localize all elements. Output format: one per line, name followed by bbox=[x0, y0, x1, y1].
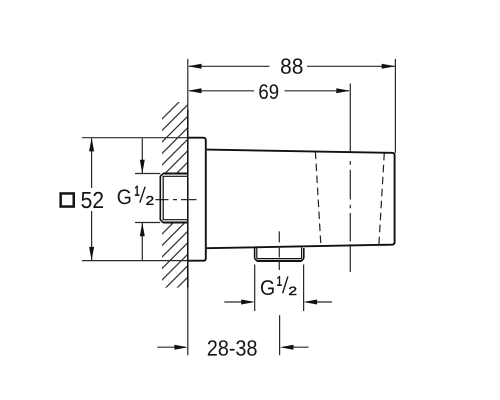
dimension 69 text bbox=[259, 84, 278, 99]
dimension 52 bottom extension line bbox=[82, 260, 188, 262]
square symbol for 52 bbox=[61, 193, 74, 206]
dimension 88 right arrowhead bbox=[382, 64, 396, 69]
left G 1/2 label bbox=[118, 186, 154, 205]
dimension 52 top extension line bbox=[82, 137, 188, 139]
flange outline bbox=[188, 138, 206, 261]
body hidden edge (right dashed) bbox=[379, 153, 384, 245]
dimension 28-38 text bbox=[208, 340, 257, 356]
wall thread G1/2 outline bbox=[160, 174, 188, 223]
outlet G1/2 dimension right arrow bbox=[306, 301, 332, 303]
outlet G 1/2 label bbox=[261, 276, 296, 295]
outlet witness line left bbox=[254, 265, 256, 312]
body hidden edge (left dashed) bbox=[315, 152, 321, 246]
body outline bbox=[207, 150, 395, 249]
dimension 88 line bbox=[189, 65, 395, 67]
wall surface line bbox=[187, 59, 189, 355]
thread dimension upper arrow bbox=[141, 138, 143, 173]
thread dimension witness line bottom bbox=[135, 222, 160, 224]
dimension 52 down arrowhead bbox=[89, 247, 94, 261]
dimension 88 text bbox=[281, 58, 303, 74]
outlet thread outline bbox=[255, 248, 304, 262]
dimension 28-38 right witness line bbox=[279, 315, 281, 355]
dimension 69 left arrowhead bbox=[188, 88, 202, 93]
dimension 69 line bbox=[189, 90, 349, 92]
dimension 88 left arrowhead bbox=[188, 64, 202, 69]
dimension 52 vertical line bbox=[91, 138, 93, 260]
dimension 69 right arrowhead bbox=[336, 88, 350, 93]
outlet centerline (dash-dot vertical) bbox=[278, 231, 280, 270]
outlet witness line right bbox=[303, 265, 305, 312]
thread dimension lower arrow bbox=[141, 223, 143, 260]
outlet G1/2 dimension left arrow bbox=[224, 301, 252, 303]
thread dimension witness line top bbox=[135, 173, 160, 175]
thread centerline (dash-dot) bbox=[155, 199, 196, 201]
dimension 28-38 left arrow bbox=[157, 346, 185, 348]
wall hatching bbox=[0, 95, 370, 300]
dimension 52 up arrowhead bbox=[89, 138, 94, 152]
dimension 88 right extension line bbox=[394, 59, 396, 153]
dimension 28-38 right arrow bbox=[283, 346, 309, 348]
dimension 52 text bbox=[81, 192, 103, 208]
dimension 69 extension / outlet centerline vertical bbox=[349, 84, 351, 273]
